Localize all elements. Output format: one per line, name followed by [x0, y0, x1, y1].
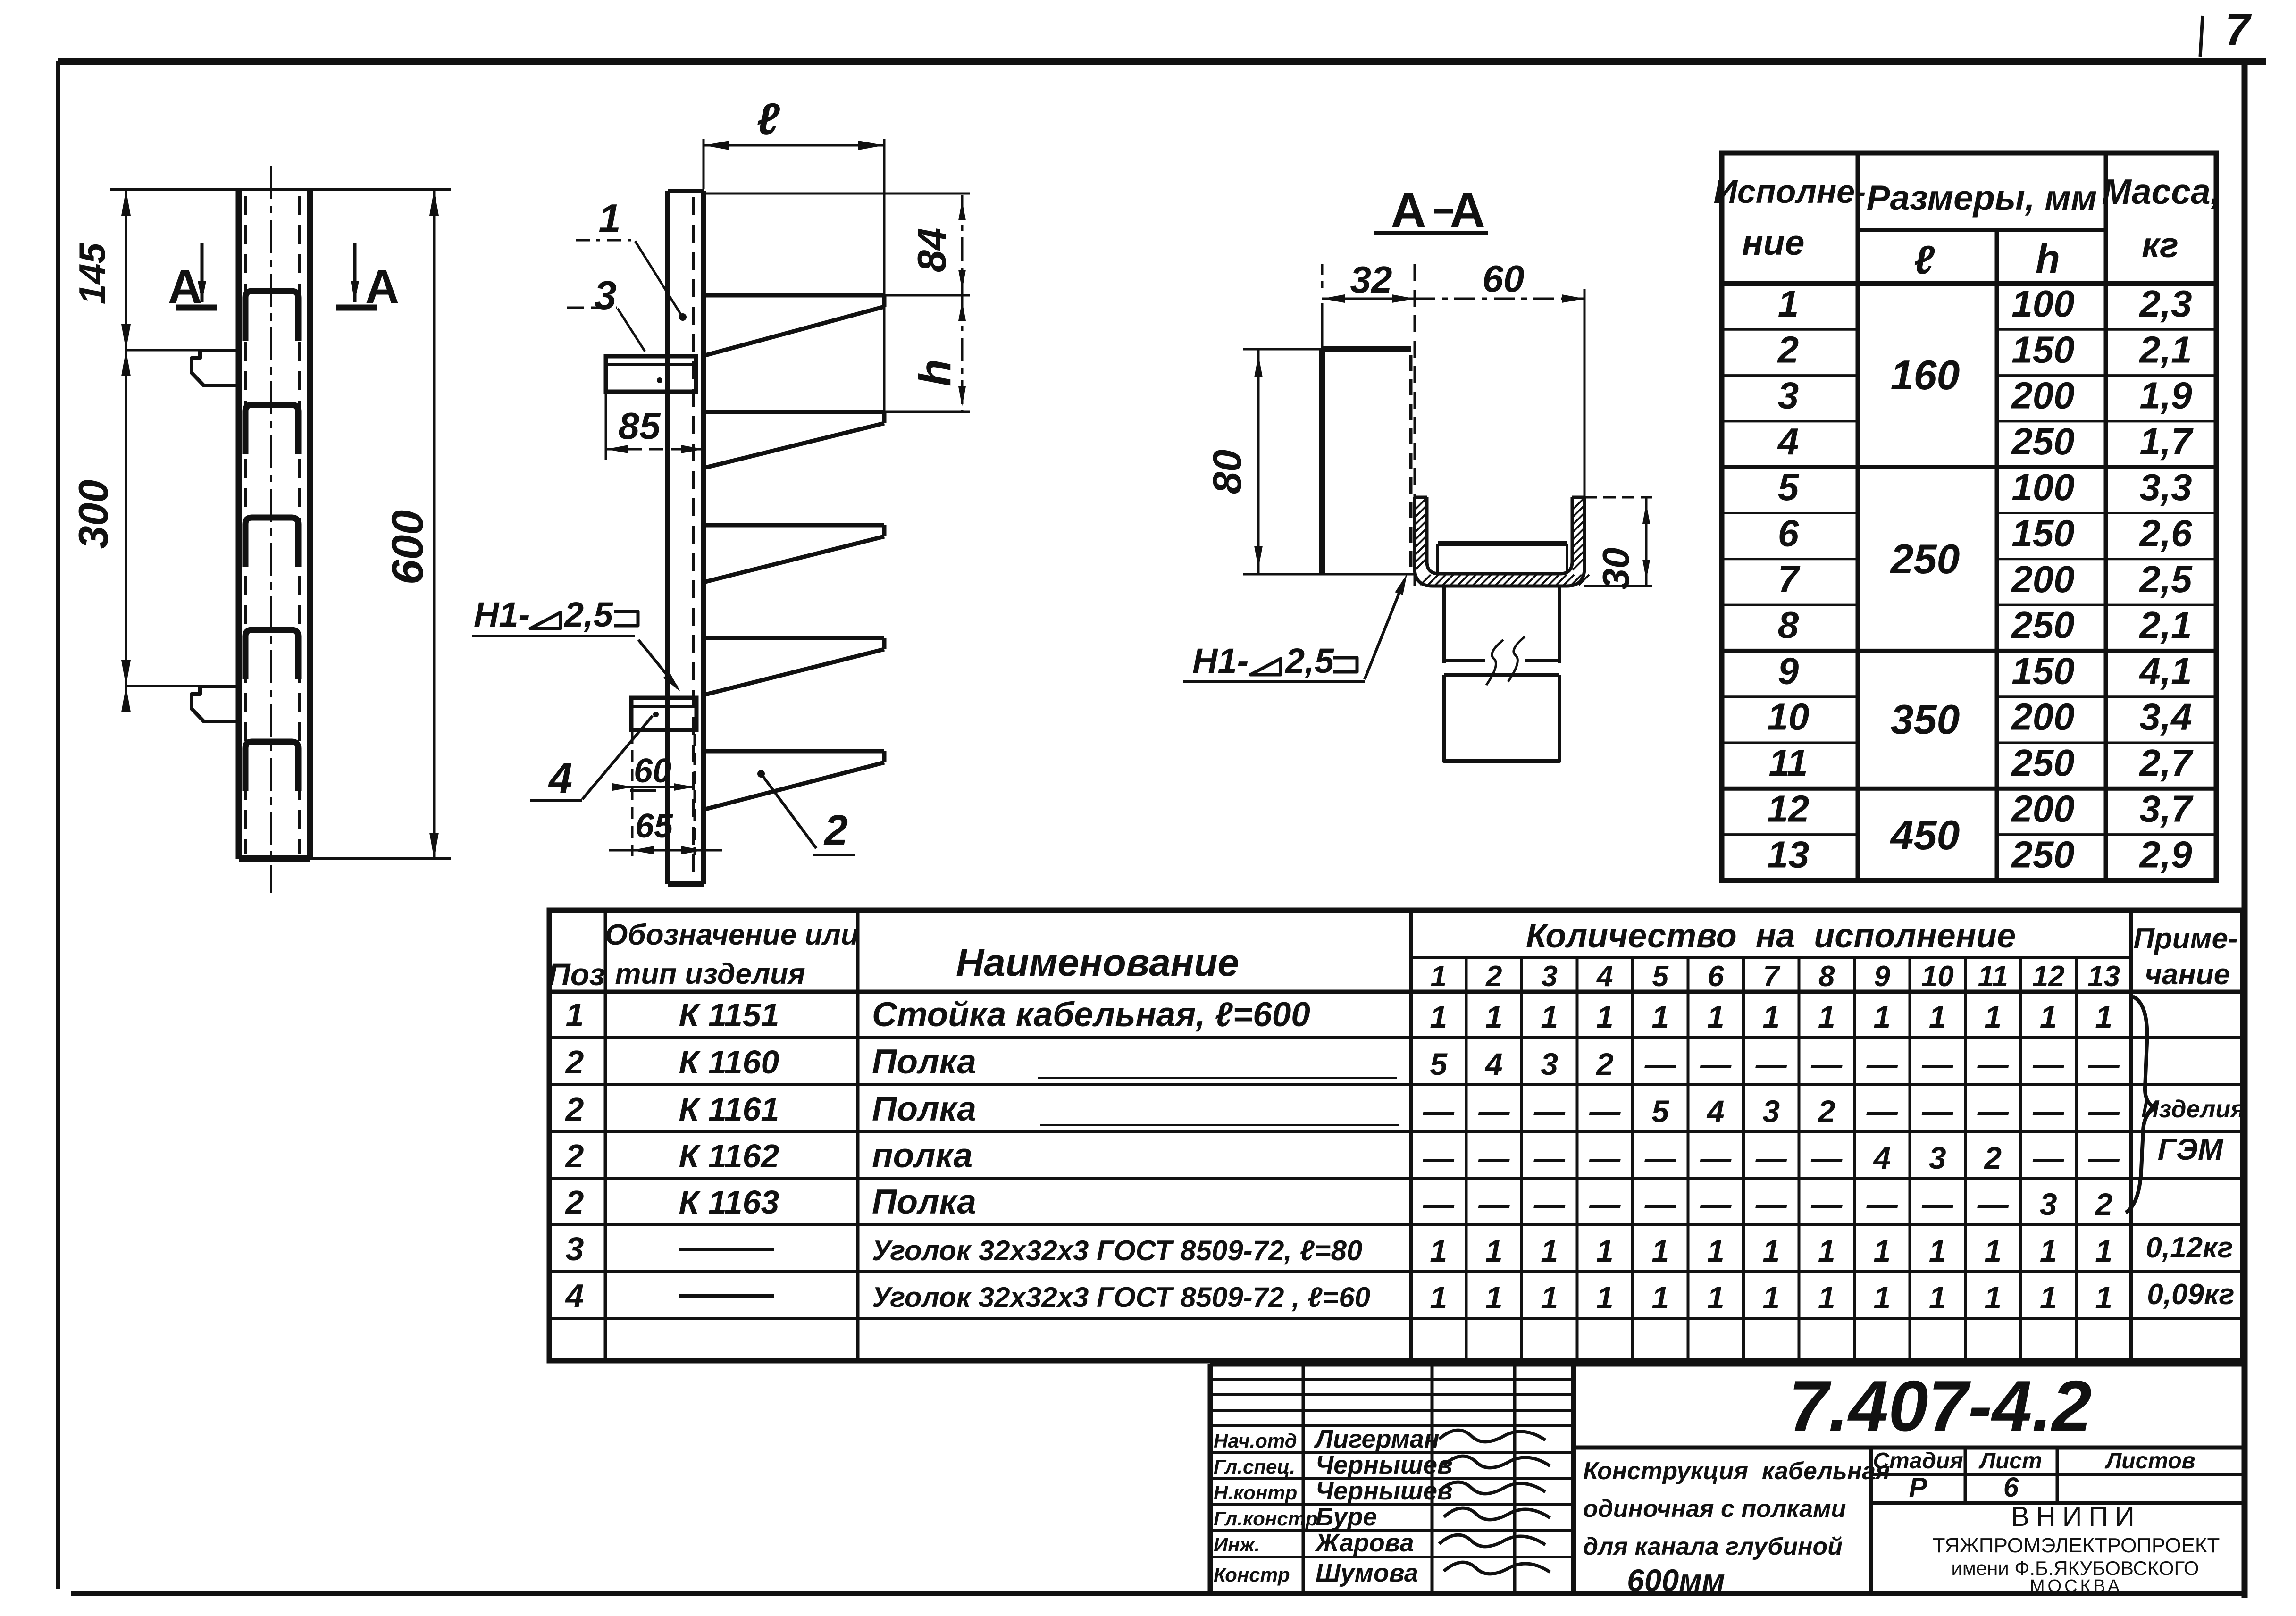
svg-text:—: —: [1866, 1047, 1898, 1081]
svg-text:30: 30: [1595, 548, 1637, 590]
svg-text:3: 3: [1762, 1094, 1780, 1129]
svg-text:Гл.спец.: Гл.спец.: [1214, 1456, 1295, 1478]
svg-text:1: 1: [1541, 1233, 1558, 1268]
svg-text:—: —: [2032, 1094, 2064, 1129]
svg-text:200: 200: [2011, 375, 2074, 417]
svg-text:1: 1: [1929, 1280, 1946, 1315]
svg-text:—: —: [1700, 1140, 1732, 1175]
svg-text:—: —: [1589, 1187, 1621, 1222]
svg-text:160: 160: [1891, 352, 1960, 398]
svg-text:—: —: [1589, 1140, 1621, 1175]
svg-text:Приме-: Приме-: [2133, 922, 2237, 955]
svg-text:1: 1: [1873, 1280, 1891, 1315]
svg-text:6: 6: [1778, 512, 1799, 554]
svg-text:1: 1: [1707, 1280, 1725, 1315]
svg-text:Изделия: Изделия: [2141, 1096, 2245, 1123]
svg-text:4: 4: [1777, 420, 1799, 462]
svg-text:—: —: [1644, 1047, 1676, 1081]
svg-text:тип изделия: тип изделия: [615, 958, 805, 990]
svg-text:200: 200: [2011, 558, 2074, 600]
svg-text:ℓ: ℓ: [1914, 238, 1935, 283]
svg-text:МОСКВА: МОСКВА: [2030, 1576, 2122, 1596]
svg-text:12: 12: [2032, 960, 2065, 993]
svg-text:1: 1: [1651, 1233, 1669, 1268]
svg-text:1: 1: [1596, 1233, 1614, 1268]
svg-text:145: 145: [71, 242, 113, 304]
svg-text:2: 2: [1777, 328, 1799, 370]
svg-text:Полка: Полка: [872, 1183, 976, 1221]
svg-text:—: —: [1977, 1047, 2009, 1081]
svg-text:250: 250: [2011, 604, 2074, 646]
svg-text:3,4: 3,4: [2139, 696, 2192, 738]
svg-text:Констр: Констр: [1214, 1564, 1290, 1586]
svg-text:ние: ние: [1742, 223, 1805, 262]
svg-text:1: 1: [1485, 1233, 1503, 1268]
svg-text:чание: чание: [2145, 958, 2230, 991]
svg-text:—: —: [1700, 1047, 1732, 1081]
svg-text:12: 12: [1768, 787, 1810, 829]
svg-text:4: 4: [1484, 1047, 1503, 1081]
svg-text:1: 1: [2040, 1233, 2057, 1268]
svg-text:3: 3: [1542, 960, 1558, 993]
svg-text:кг: кг: [2142, 225, 2179, 265]
svg-text:Поз: Поз: [548, 957, 605, 992]
svg-text:ℓ: ℓ: [756, 94, 780, 144]
svg-text:Наименование: Наименование: [956, 941, 1239, 984]
svg-text:100: 100: [2011, 466, 2074, 508]
svg-text:4,1: 4,1: [2138, 650, 2192, 692]
svg-text:1: 1: [1762, 999, 1780, 1034]
svg-text:150: 150: [2011, 328, 2074, 370]
svg-text:—: —: [1700, 1187, 1732, 1222]
svg-text:4: 4: [1706, 1094, 1725, 1129]
svg-text:8: 8: [1818, 960, 1835, 993]
svg-text:—: —: [1755, 1047, 1787, 1081]
svg-text:1: 1: [1430, 999, 1447, 1034]
svg-text:1: 1: [1818, 999, 1835, 1034]
svg-text:7: 7: [2225, 5, 2252, 55]
svg-text:Уголок 32х32х3 ГОСТ 8509-72, ℓ: Уголок 32х32х3 ГОСТ 8509-72, ℓ=80: [872, 1235, 1362, 1266]
svg-text:1: 1: [1541, 999, 1558, 1034]
svg-text:1,9: 1,9: [2139, 375, 2192, 417]
svg-text:—: —: [2088, 1140, 2120, 1175]
svg-text:—: —: [1755, 1140, 1787, 1175]
svg-text:3: 3: [566, 1231, 584, 1267]
svg-text:Нач.отд: Нач.отд: [1214, 1430, 1297, 1452]
svg-text:1: 1: [1873, 999, 1891, 1034]
svg-text:A: A: [1450, 183, 1485, 238]
svg-text:2,5: 2,5: [2138, 558, 2193, 600]
svg-text:1: 1: [2095, 999, 2112, 1034]
svg-text:0,09кг: 0,09кг: [2147, 1278, 2234, 1311]
svg-text:1: 1: [1984, 999, 2002, 1034]
svg-text:имени Ф.Б.ЯКУБОВСКОГО: имени Ф.Б.ЯКУБОВСКОГО: [1951, 1557, 2199, 1579]
svg-text:2: 2: [1817, 1094, 1835, 1129]
svg-text:Стадия: Стадия: [1873, 1449, 1963, 1474]
svg-text:—: —: [1977, 1187, 2009, 1222]
svg-text:—: —: [1478, 1140, 1510, 1175]
svg-text:1: 1: [1929, 1233, 1946, 1268]
svg-text:—: —: [1977, 1094, 2009, 1129]
svg-text:2: 2: [2094, 1187, 2112, 1222]
svg-text:7.407-4.2: 7.407-4.2: [1789, 1366, 2092, 1446]
svg-text:6: 6: [1708, 960, 1724, 993]
svg-text:—: —: [1423, 1187, 1455, 1222]
svg-text:ГЭМ: ГЭМ: [2158, 1132, 2224, 1166]
svg-text:—: —: [2088, 1094, 2120, 1129]
svg-text:3: 3: [2040, 1187, 2057, 1222]
svg-text:ВНИПИ: ВНИПИ: [2011, 1501, 2141, 1532]
svg-text:1: 1: [2040, 999, 2057, 1034]
svg-text:4: 4: [548, 755, 572, 802]
svg-text:2,3: 2,3: [2138, 283, 2192, 325]
svg-text:2,1: 2,1: [2138, 604, 2192, 646]
svg-text:1: 1: [1651, 1280, 1669, 1315]
svg-text:К 1161: К 1161: [679, 1091, 779, 1128]
svg-text:4: 4: [1596, 960, 1613, 993]
svg-text:1: 1: [1651, 999, 1669, 1034]
svg-text:1: 1: [1818, 1280, 1835, 1315]
svg-text:—: —: [1644, 1140, 1676, 1175]
svg-text:Уголок 32х32х3 ГОСТ 8509-72 ,: Уголок 32х32х3 ГОСТ 8509-72 , ℓ=60: [872, 1281, 1370, 1313]
svg-text:Н.контр: Н.контр: [1214, 1482, 1297, 1504]
svg-text:H1-: H1-: [1192, 641, 1249, 680]
svg-text:1: 1: [1778, 283, 1799, 325]
svg-text:—: —: [1921, 1094, 1953, 1129]
svg-text:—: —: [2032, 1140, 2064, 1175]
svg-text:Полка: Полка: [872, 1090, 976, 1128]
svg-text:5: 5: [1430, 1047, 1448, 1081]
svg-text:3: 3: [1778, 375, 1799, 417]
svg-text:250: 250: [1890, 536, 1960, 582]
svg-text:1,7: 1,7: [2139, 420, 2194, 462]
svg-text:—: —: [1921, 1187, 1953, 1222]
svg-text:Лист: Лист: [1978, 1449, 2042, 1474]
svg-text:—: —: [1423, 1140, 1455, 1175]
svg-text:1: 1: [1762, 1233, 1780, 1268]
svg-text:5: 5: [1652, 960, 1669, 993]
svg-text:150: 150: [2011, 512, 2074, 554]
svg-text:—: —: [1755, 1187, 1787, 1222]
svg-text:Стойка кабельная, ℓ=600: Стойка кабельная, ℓ=600: [872, 996, 1310, 1034]
svg-text:Исполне-: Исполне-: [1714, 173, 1866, 210]
svg-text:одиночная с полками: одиночная с полками: [1583, 1495, 1846, 1523]
svg-text:10: 10: [1921, 960, 1954, 993]
svg-text:10: 10: [1768, 696, 1810, 738]
svg-text:Жарова: Жарова: [1314, 1529, 1414, 1557]
svg-text:3,7: 3,7: [2139, 787, 2194, 829]
svg-text:65: 65: [635, 807, 673, 845]
svg-text:1: 1: [1818, 1233, 1835, 1268]
svg-text:—: —: [1589, 1094, 1621, 1129]
svg-text:100: 100: [2011, 283, 2074, 325]
svg-text:—: —: [1478, 1094, 1510, 1129]
svg-text:250: 250: [2011, 834, 2074, 876]
svg-text:Размеры, мм: Размеры, мм: [1867, 178, 2097, 218]
svg-text:80: 80: [1205, 450, 1250, 494]
svg-text:2,7: 2,7: [2138, 742, 2194, 784]
svg-text:2: 2: [565, 1184, 584, 1221]
svg-text:—: —: [1423, 1094, 1455, 1129]
svg-text:—: —: [2032, 1047, 2064, 1081]
svg-text:1: 1: [1762, 1280, 1780, 1315]
svg-text:—: —: [1866, 1187, 1898, 1222]
svg-text:—: —: [1810, 1047, 1843, 1081]
svg-text:Инж.: Инж.: [1214, 1533, 1260, 1556]
svg-text:Масса,: Масса,: [2102, 172, 2220, 211]
svg-text:Р: Р: [1909, 1472, 1927, 1503]
svg-text:—: —: [1644, 1187, 1676, 1222]
svg-text:2: 2: [823, 807, 848, 854]
svg-text:—: —: [2088, 1047, 2120, 1081]
svg-text:7: 7: [1778, 558, 1801, 600]
svg-text:2: 2: [565, 1044, 584, 1080]
svg-text:1: 1: [2095, 1233, 2112, 1268]
svg-text:7: 7: [1763, 960, 1781, 993]
svg-text:H1-: H1-: [474, 595, 530, 634]
svg-text:250: 250: [2011, 742, 2074, 784]
svg-text:450: 450: [1890, 812, 1960, 858]
svg-text:Чернышев: Чернышев: [1316, 1477, 1453, 1505]
svg-text:11: 11: [1768, 742, 1808, 784]
svg-text:2: 2: [1983, 1140, 2002, 1175]
svg-text:3: 3: [1541, 1047, 1558, 1081]
svg-text:5: 5: [1651, 1094, 1669, 1129]
svg-text:Лигерман: Лигерман: [1314, 1425, 1439, 1453]
svg-text:К 1163: К 1163: [679, 1184, 779, 1221]
svg-text:3,3: 3,3: [2139, 466, 2192, 508]
svg-text:полка: полка: [872, 1137, 972, 1175]
svg-text:1: 1: [566, 996, 584, 1033]
svg-text:—: —: [1921, 1047, 1953, 1081]
svg-text:К 1151: К 1151: [679, 996, 779, 1033]
svg-text:2,6: 2,6: [2138, 512, 2192, 554]
svg-text:К 1162: К 1162: [679, 1138, 779, 1174]
svg-text:600: 600: [383, 510, 433, 585]
svg-text:1: 1: [1596, 1280, 1614, 1315]
svg-text:8: 8: [1778, 604, 1799, 646]
svg-text:1: 1: [1596, 999, 1614, 1034]
svg-text:ТЯЖПРОМЭЛЕКТРОПРОЕКТ: ТЯЖПРОМЭЛЕКТРОПРОЕКТ: [1933, 1534, 2220, 1557]
svg-text:A: A: [1391, 183, 1426, 238]
svg-text:—: —: [1533, 1094, 1566, 1129]
svg-text:600мм: 600мм: [1627, 1563, 1725, 1598]
svg-text:2,1: 2,1: [2138, 328, 2192, 370]
svg-text:60: 60: [634, 752, 671, 790]
svg-text:1: 1: [1485, 1280, 1503, 1315]
svg-text:1: 1: [1541, 1280, 1558, 1315]
svg-text:2: 2: [565, 1091, 584, 1128]
svg-text:1: 1: [1873, 1233, 1891, 1268]
svg-text:1: 1: [1430, 1280, 1447, 1315]
svg-text:2,5: 2,5: [1284, 641, 1335, 680]
svg-text:13: 13: [1768, 834, 1810, 876]
svg-text:—: —: [1810, 1187, 1843, 1222]
svg-text:84: 84: [910, 228, 955, 273]
svg-text:Обозначение или: Обозначение или: [605, 919, 859, 951]
svg-text:К 1160: К 1160: [679, 1044, 779, 1080]
svg-text:300: 300: [70, 480, 117, 549]
svg-text:5: 5: [1778, 466, 1800, 508]
svg-text:—: —: [1478, 1187, 1510, 1222]
svg-text:—: —: [1533, 1187, 1566, 1222]
svg-text:2,9: 2,9: [2138, 834, 2192, 876]
svg-text:13: 13: [2087, 960, 2120, 993]
svg-text:4: 4: [565, 1277, 584, 1314]
svg-text:Количество на исполнение: Количество на исполнение: [1526, 917, 2016, 955]
svg-text:2: 2: [565, 1138, 584, 1174]
svg-text:1: 1: [1707, 1233, 1725, 1268]
svg-text:1: 1: [1485, 999, 1503, 1034]
svg-text:200: 200: [2011, 696, 2074, 738]
svg-text:1: 1: [1431, 960, 1447, 993]
svg-text:11: 11: [1978, 960, 2008, 993]
svg-text:Шумова: Шумова: [1316, 1559, 1418, 1587]
svg-text:6: 6: [2003, 1472, 2019, 1503]
svg-text:1: 1: [1984, 1233, 2002, 1268]
svg-text:1: 1: [2095, 1280, 2112, 1315]
svg-text:1: 1: [1984, 1280, 2002, 1315]
svg-text:350: 350: [1891, 696, 1960, 743]
svg-text:150: 150: [2011, 650, 2074, 692]
svg-text:Гл.констр: Гл.констр: [1214, 1507, 1318, 1530]
svg-text:—: —: [1810, 1140, 1843, 1175]
svg-text:85: 85: [619, 405, 661, 447]
svg-text:250: 250: [2011, 420, 2074, 462]
svg-text:0,12кг: 0,12кг: [2145, 1231, 2233, 1264]
svg-text:Буре: Буре: [1316, 1503, 1377, 1531]
svg-text:200: 200: [2011, 787, 2074, 829]
svg-text:h: h: [2036, 237, 2060, 282]
svg-text:—: —: [1533, 1140, 1566, 1175]
svg-text:3: 3: [594, 273, 616, 318]
svg-text:1: 1: [2040, 1280, 2057, 1315]
svg-text:9: 9: [1778, 650, 1799, 692]
svg-text:60: 60: [1483, 258, 1525, 300]
svg-text:32: 32: [1350, 259, 1392, 301]
svg-text:4: 4: [1872, 1140, 1891, 1175]
svg-text:h: h: [910, 359, 960, 386]
svg-text:1: 1: [598, 196, 620, 241]
svg-text:Листов: Листов: [2104, 1449, 2195, 1474]
svg-text:Чернышев: Чернышев: [1316, 1451, 1453, 1479]
svg-text:2: 2: [1595, 1047, 1614, 1081]
svg-text:9: 9: [1874, 960, 1891, 993]
svg-text:1: 1: [1707, 999, 1725, 1034]
svg-text:2,5: 2,5: [563, 595, 614, 634]
svg-text:для канала глубиной: для канала глубиной: [1583, 1533, 1843, 1560]
svg-text:—: —: [1866, 1094, 1898, 1129]
svg-text:Конструкция кабельная: Конструкция кабельная: [1583, 1457, 1890, 1485]
svg-text:1: 1: [1929, 999, 1946, 1034]
svg-text:3: 3: [1929, 1140, 1946, 1175]
svg-text:1: 1: [1430, 1233, 1447, 1268]
svg-text:2: 2: [1485, 960, 1502, 993]
svg-text:Полка: Полка: [872, 1043, 976, 1081]
